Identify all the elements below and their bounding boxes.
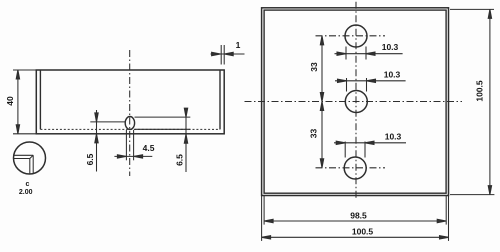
svg-text:1: 1 [236, 40, 241, 50]
svg-text:4.5: 4.5 [143, 143, 155, 153]
detail inner top line [14, 158, 30, 160]
hole projection line left [125, 130, 127, 161]
hole H3 bottom circle [344, 157, 366, 179]
svg-text:100.5: 100.5 [352, 227, 374, 237]
svg-text:6.5: 6.5 [174, 154, 184, 166]
detail circle [14, 142, 46, 174]
hole H1 top circle [345, 25, 367, 47]
hole H3 centerline [316, 167, 386, 169]
side view outer outline [36, 70, 224, 134]
dimension 100.5 bottom [262, 196, 449, 241]
dimension 98.5 bottom [264, 196, 446, 225]
dimension 100.5 right side (vertical) [450, 9, 494, 194]
svg-text:2.00: 2.00 [19, 189, 33, 196]
hole projection line right [133, 130, 135, 161]
svg-text:10.3: 10.3 [384, 69, 401, 79]
small hole ellipse in side view [125, 117, 134, 130]
hole centre extension going left [90, 121, 125, 123]
svg-text:98.5: 98.5 [350, 211, 367, 221]
detail chamfer diagonal [30, 155, 33, 158]
tangent line from hole top going right [135, 116, 191, 118]
detail outer top line [14, 154, 33, 156]
vertical centerline of plate [355, 2, 357, 200]
svg-text:c: c [26, 181, 30, 188]
dimension 6.5 left [95, 110, 98, 172]
dimension 10.3 of hole H1 (below circle) [335, 47, 403, 60]
svg-text:40: 40 [5, 96, 15, 106]
plate inner lip outline [264, 10, 446, 193]
detail inner right line [29, 159, 31, 174]
dimension 33 upper line [320, 36, 323, 102]
side view right wall inner line [219, 70, 221, 129]
dimension 6.5 right [184, 108, 187, 172]
hole H1 centerline [316, 35, 386, 37]
hidden inner bottom line (dotted) [40, 128, 220, 130]
horizontal centerline of plate [245, 101, 463, 103]
svg-text:100.5: 100.5 [474, 80, 484, 102]
tangent line from hole bottom going right [135, 128, 191, 130]
dimension 40 left side [13, 70, 36, 134]
svg-text:10.3: 10.3 [385, 131, 402, 141]
dimension 10.3 of hole H3 (above circle) [334, 141, 406, 157]
detail outer right line [32, 155, 34, 173]
dimension 4.5 [114, 155, 152, 158]
svg-text:6.5: 6.5 [85, 153, 95, 165]
dimension 33 lower line [320, 102, 323, 168]
svg-text:33: 33 [309, 129, 319, 139]
dimension 1 (wall thickness, top right) [211, 45, 245, 65]
side view vertical centerline [129, 50, 131, 176]
plate outer outline [262, 8, 449, 196]
svg-text:10.3: 10.3 [382, 42, 399, 52]
dimension 10.3 of hole H2 (above circle) [335, 78, 406, 92]
hole H2 middle circle [345, 91, 367, 113]
svg-text:33: 33 [309, 62, 319, 72]
side view left wall inner line [39, 70, 41, 129]
